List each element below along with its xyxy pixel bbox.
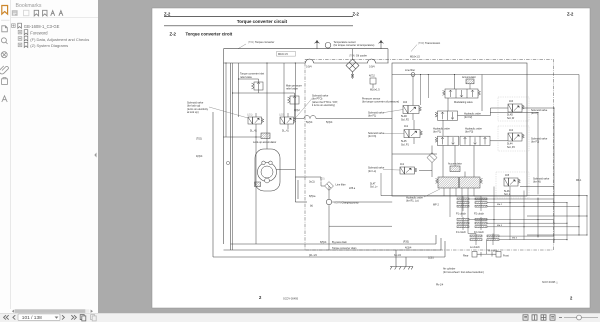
accumulator top symbol: [466, 79, 474, 84]
svg-text:(L02): (L02): [279, 115, 285, 117]
torque converter inner circle: [261, 166, 273, 178]
pages strip icon: [2, 26, 8, 32]
svg-text:M16×1.5: M16×1.5: [410, 56, 420, 59]
svg-text:(for F1): (for F1): [368, 115, 376, 118]
svg-text:By-pass drain: By-pass drain: [332, 241, 348, 244]
right header vertical: [387, 49, 389, 63]
svg-text:Torque converter drain: Torque converter drain: [332, 247, 357, 250]
svg-text:(for Lo): (for Lo): [368, 170, 376, 173]
solenoid valve P: [508, 104, 524, 112]
svg-text:(T04) Oil cooler: (T04) Oil cooler: [349, 53, 367, 57]
mid vertical wire a: [225, 63, 227, 137]
svg-text:F1 clutch: F1 clutch: [456, 231, 467, 234]
outer drain vertical: [212, 112, 214, 257]
panel collapse handle: [94, 153, 96, 158]
svg-text:Hi clutch: Hi clutch: [488, 250, 498, 253]
svg-text:5L_41: 5L_41: [282, 130, 289, 133]
status bar: [0, 314, 600, 322]
wire v2 down: [283, 63, 285, 117]
header rule bottom: [164, 25, 353, 27]
leader torque converter: [238, 44, 246, 49]
svg-text:1b5: 1b5: [505, 174, 510, 177]
svg-text:6(5)/4: 6(5)/4: [320, 241, 327, 244]
temperature sensor: [325, 42, 331, 48]
drain drop right 3: [444, 241, 446, 257]
oil cooler diamond: [346, 59, 359, 78]
accumulator line: [223, 136, 261, 138]
panel toolbar: [12, 10, 63, 16]
hydraulic valve R1 R2 hatched: [436, 177, 483, 188]
leader lock up: [209, 107, 248, 118]
rail drop b: [427, 75, 429, 99]
lower drain line: [213, 256, 445, 258]
secondary rail: [392, 74, 579, 76]
line hop arc left: [306, 59, 314, 63]
left main vertical: [223, 49, 225, 244]
svg-text:5(2)/4: 5(2)/4: [306, 121, 313, 124]
clutch row C group 2: [487, 234, 499, 246]
far right vertical rail: [586, 196, 588, 235]
svg-text:Sol.,L+: Sol.,L+: [370, 186, 378, 189]
svg-text:(for F2): (for F2): [464, 116, 472, 119]
hydraulic valve F1: [435, 136, 459, 145]
left tool strip divider: [10, 0, 12, 309]
svg-text:(for R1, Lo): (for R1, Lo): [406, 200, 419, 203]
strainer feed vertical: [294, 63, 296, 177]
svg-text:(for F1): (for F1): [433, 131, 441, 134]
wire relief header: [233, 92, 295, 94]
breather symbol left: [314, 40, 319, 48]
destinations strip icon: [1, 52, 7, 58]
svg-text:1b0: 1b0: [509, 100, 514, 103]
wire sol Lo drop: [380, 173, 382, 196]
svg-text:(C0): (C0): [320, 179, 325, 181]
header rule top: [164, 16, 353, 18]
hydraulic tank: [390, 250, 413, 270]
junction dots: [493, 107, 579, 240]
svg-text:P2 clutch: P2 clutch: [474, 212, 485, 215]
svg-text:5(3)/4: 5(3)/4: [326, 121, 333, 124]
pump-filter link: [328, 186, 330, 199]
second drain vertical: [230, 63, 232, 250]
wire V1 drain drop: [255, 129, 257, 244]
wire mod to F2: [447, 98, 449, 111]
drain drop right 1: [435, 235, 437, 244]
rail junction dots: [420, 74, 455, 75]
svg-text:b1-1/4: b1-1/4: [394, 254, 402, 257]
svg-text:SCDY-00495: SCDY-00495: [283, 297, 299, 301]
tc drain block: [255, 182, 261, 187]
svg-text:Torque converter circuit: Torque converter circuit: [237, 19, 288, 24]
svg-text:4(3)/4: 4(3)/4: [405, 246, 412, 249]
svg-text:0.5/4: 0.5/4: [369, 65, 375, 68]
svg-text:Torque converter ciroit: Torque converter ciroit: [186, 31, 233, 36]
svg-text:Mb·4: Mb·4: [512, 237, 518, 239]
torque converter outer circle: [258, 163, 277, 182]
hop line to transmission: [294, 116, 392, 119]
mid vertical wire c: [238, 63, 240, 117]
by-pass drain line: [231, 243, 437, 245]
svg-text:(T01) Torque converter: (T01) Torque converter: [248, 40, 274, 44]
hydraulic valve F3: [460, 136, 490, 145]
svg-text:(for torque converter oil pres: (for torque converter oil pressure): [362, 101, 399, 104]
wire F3 feed: [481, 75, 483, 112]
mid vertical wire b: [232, 63, 234, 250]
svg-text:SCDY-00495 △: SCDY-00495 △: [542, 281, 558, 284]
tc bottom small circle: [265, 178, 270, 183]
svg-text:(for two-wheel / four-wheel se: (for two-wheel / four-wheel selection): [443, 271, 484, 274]
tc inlet relief valve: [252, 79, 264, 93]
grid verticals: [494, 187, 567, 240]
page: [152, 8, 590, 308]
svg-text:Mb·1: Mb·1: [576, 180, 582, 182]
leader sol F1: [384, 110, 403, 113]
leader sol F3: [384, 132, 404, 134]
wire valve interconnects: [392, 108, 554, 243]
svg-text:4(7)2: 4(7)2: [369, 75, 375, 78]
svg-text:5L_41: 5L_41: [250, 130, 257, 133]
svg-text:6(5)/a: 6(5)/a: [309, 195, 316, 198]
solenoid valve PTO: [403, 75, 421, 121]
line filter diamond lower: [325, 182, 334, 191]
clutch grid h1: [469, 199, 579, 240]
strainer to filter wire: [307, 177, 321, 182]
right rail vertical: [578, 75, 580, 236]
svg-text:(F) Data, Adjustment and Check: (F) Data, Adjustment and Checks: [30, 37, 89, 42]
svg-text:Z-2: Z-2: [164, 12, 171, 17]
filter diamond bottom: [427, 153, 437, 163]
tc outlet line: [277, 169, 296, 171]
air cylinder link: [481, 240, 492, 255]
transmission boundary box: [305, 60, 554, 251]
port label box M16x1.5: [277, 52, 296, 57]
rail branch 2: [527, 215, 587, 217]
svg-text:(b): (b): [310, 204, 313, 207]
hydraulic valve F2: [435, 111, 458, 120]
svg-text:GB-1608-1_C3-GE: GB-1608-1_C3-GE: [24, 24, 60, 29]
svg-text:1b1: 1b1: [400, 163, 405, 166]
svg-text:Lock-up accumulator: Lock-up accumulator: [253, 141, 276, 144]
wire v3 top: [239, 78, 259, 80]
rail branch 3: [527, 234, 587, 236]
svg-text:4(3)2: 4(3)2: [294, 109, 300, 112]
torque converter loop pipe: [255, 149, 280, 191]
pressure sensor stub: [370, 78, 376, 88]
svg-text:at lock up): at lock up): [187, 111, 199, 114]
search strip icon: [1, 38, 7, 44]
strainer symbol: [295, 177, 307, 202]
svg-text:Rear: Rear: [463, 255, 469, 258]
clutch row B group 2: [475, 217, 487, 230]
svg-text:(T02): (T02): [196, 138, 202, 141]
svg-text:MP·2: MP·2: [433, 204, 439, 207]
modulating valve: [443, 89, 481, 98]
svg-text:(for torque converter oil temp: (for torque converter oil temperature): [334, 44, 375, 47]
leader R valve: [424, 189, 440, 197]
modulating feed: [454, 75, 456, 90]
svg-text:Front: Front: [503, 255, 509, 258]
svg-text:1b0: 1b0: [403, 101, 408, 104]
wire F2 to solP: [458, 108, 509, 116]
wire F2 to F1: [442, 120, 444, 136]
breather symbol right: [378, 40, 383, 48]
clutch row A group 2: [475, 196, 487, 211]
torque converter drain line: [224, 249, 442, 251]
oil cooler feed stub: [352, 49, 354, 59]
svg-text:Foreword: Foreword: [30, 30, 48, 35]
svg-text:Mb·2: Mb·2: [497, 204, 503, 206]
svg-text:Line filter: Line filter: [336, 183, 346, 186]
leader sol Lo: [383, 169, 400, 172]
svg-text:Line filter: Line filter: [405, 69, 415, 72]
rail branch 1: [381, 195, 587, 197]
svg-text:Accumulator: Accumulator: [462, 76, 476, 79]
svg-text:1(3)1: 1(3)1: [428, 256, 434, 259]
solenoid valve F2b: [508, 133, 524, 141]
svg-text:Mb·3: Mb·3: [497, 225, 503, 227]
dashed cluster box sol P: [498, 97, 529, 121]
leader PTO label: [295, 99, 312, 119]
svg-text:1b2: 1b2: [509, 129, 514, 132]
torque converter return line: [224, 59, 389, 63]
clutch row C group 1: [470, 234, 482, 246]
svg-text:P1 clutch: P1 clutch: [456, 212, 467, 215]
svg-text:Bookmarks: Bookmarks: [16, 3, 42, 9]
front cylinder: [492, 252, 501, 258]
port circle on drain vertical: [226, 161, 229, 164]
svg-text:relief valve: relief valve: [240, 76, 253, 79]
active bookmarks strip icon: [2, 6, 8, 15]
svg-text:Z-2: Z-2: [567, 12, 574, 17]
junction dots left column: [225, 62, 295, 137]
bookmark tree: [12, 23, 90, 48]
svg-text:0.5/4: 0.5/4: [306, 65, 312, 68]
svg-text:3c(1): 3c(1): [309, 181, 315, 184]
svg-text:Z-2: Z-2: [353, 12, 360, 17]
lock-up accumulator: [261, 133, 270, 139]
svg-text:101 / 138: 101 / 138: [22, 315, 42, 321]
svg-text:Modulating valve: Modulating valve: [454, 101, 473, 104]
layers strip icon: [2, 96, 7, 102]
tc top small circle right: [269, 161, 273, 165]
fields strip icon: [2, 78, 8, 85]
svg-text:(Z) System Diagrams: (Z) System Diagrams: [30, 43, 68, 48]
svg-text:(T00) Transmission: (T00) Transmission: [418, 41, 441, 45]
wire v4 down: [294, 107, 296, 119]
lock-up solenoid valve L01: [248, 113, 264, 129]
clutch row B group 1: [457, 217, 469, 230]
line filter top circle: [411, 73, 415, 77]
svg-text:Sol.,P2: Sol.,P2: [507, 146, 516, 149]
attachment strip icon: [0, 66, 8, 74]
svg-text:(b1-1/4: (b1-1/4: [309, 254, 317, 257]
accumulator drop: [469, 84, 471, 89]
wire F3 to solF2: [490, 140, 508, 142]
wire filter inlet: [321, 182, 325, 186]
svg-text:4(3)/4: 4(3)/4: [196, 155, 203, 158]
drop wires from R valve: [444, 188, 481, 234]
svg-text:(for Hi): (for Hi): [533, 181, 541, 184]
drain drop right 2: [440, 238, 442, 250]
svg-text:225.a: 225.a: [349, 187, 356, 190]
solenoid valve L2: [404, 120, 422, 144]
svg-text:(P20): (P20): [403, 240, 409, 243]
svg-text:(for F3): (for F3): [465, 131, 473, 134]
svg-text:relief valve: relief valve: [286, 88, 299, 91]
svg-text:Lo clutch: Lo clutch: [470, 246, 480, 249]
wire to tc loop: [266, 63, 268, 149]
pump down wire: [329, 205, 392, 250]
svg-text:1b1: 1b1: [404, 125, 409, 128]
panel horizontal scrollbar: [12, 309, 93, 313]
svg-text:it turns on electricity): it turns on electricity): [312, 104, 335, 107]
clutch row A group 1: [457, 196, 469, 211]
valve block assembly outline: [392, 63, 527, 196]
solenoid valve Hi: [504, 178, 520, 186]
svg-text:Sol.,W: Sol.,W: [507, 117, 515, 120]
svg-text:M16×1.5: M16×1.5: [370, 89, 380, 92]
svg-text:M16×1.5: M16×1.5: [278, 53, 288, 56]
lock-up solenoid valve L02: [280, 113, 296, 129]
torque converter feed line top: [224, 48, 389, 50]
tc top small circle left: [262, 161, 266, 165]
svg-text:Sol.,P1: Sol.,P1: [401, 143, 410, 146]
svg-text:Z-2: Z-2: [170, 31, 177, 36]
accumulator bottom symbol: [450, 166, 460, 172]
pump outlet wire: [332, 201, 392, 203]
dashed cluster box sol F2: [498, 126, 529, 151]
dashed cluster box sol Hi: [496, 172, 529, 198]
svg-text:Pb-1/4: Pb-1/4: [436, 284, 444, 287]
svg-text:Sol.,P2: Sol.,P2: [401, 118, 410, 121]
solenoid valve R2: [400, 167, 417, 174]
svg-text:(L01): (L01): [247, 115, 253, 117]
svg-text:(for F3): (for F3): [368, 135, 376, 138]
charging pump circle: [326, 199, 331, 204]
leader transmission: [411, 45, 417, 52]
inlet pressure relief valve: [288, 93, 300, 107]
far right rail dots: [586, 195, 587, 235]
rail drop a: [420, 75, 422, 106]
